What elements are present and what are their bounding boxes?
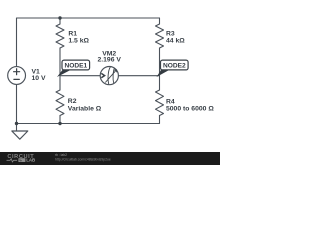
- svg-text:LAB: LAB: [26, 158, 35, 163]
- svg-text:5000 to 6000 Ω: 5000 to 6000 Ω: [166, 106, 214, 113]
- svg-text:NODE2: NODE2: [163, 63, 186, 70]
- svg-text:http://circuitlab.com/c48ta9bv: http://circuitlab.com/c48ta9bvls9p2ue: [55, 157, 111, 161]
- svg-text:R2: R2: [68, 98, 77, 105]
- svg-text:R1: R1: [68, 30, 77, 37]
- svg-text:10 V: 10 V: [32, 75, 46, 82]
- svg-text:NODE1: NODE1: [64, 63, 87, 70]
- svg-text:R3: R3: [166, 30, 175, 37]
- svg-text:2.196 V: 2.196 V: [97, 57, 121, 64]
- svg-text:Variable Ω: Variable Ω: [68, 105, 102, 112]
- svg-text:R4: R4: [166, 98, 175, 105]
- svg-text:1.5 kΩ: 1.5 kΩ: [68, 37, 89, 44]
- svg-text:44 kΩ: 44 kΩ: [166, 37, 185, 44]
- svg-text:rb : lab2: rb : lab2: [55, 153, 67, 157]
